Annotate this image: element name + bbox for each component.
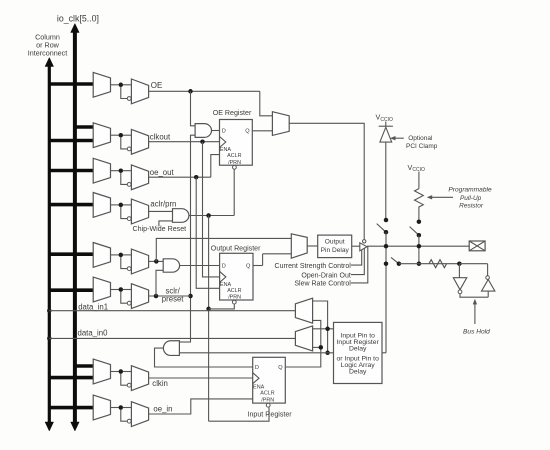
svg-text:Output Register: Output Register xyxy=(211,244,261,252)
svg-text:/PRN: /PRN xyxy=(261,397,274,403)
svg-text:PCI Clamp: PCI Clamp xyxy=(406,143,438,150)
svg-text:ACLR: ACLR xyxy=(227,153,241,159)
svg-text:clkout: clkout xyxy=(150,133,171,142)
svg-text:ACLR: ACLR xyxy=(227,288,241,294)
svg-text:D: D xyxy=(222,129,226,135)
svg-text:CCIO: CCIO xyxy=(380,117,393,123)
svg-text:oe_out: oe_out xyxy=(150,168,175,177)
svg-text:Input Register: Input Register xyxy=(248,411,293,419)
svg-text:Resistor: Resistor xyxy=(459,203,484,210)
svg-text:Open-Drain Out: Open-Drain Out xyxy=(301,272,350,279)
svg-text:Delay: Delay xyxy=(349,369,367,376)
svg-text:/PRN: /PRN xyxy=(228,294,241,300)
svg-text:oe_in: oe_in xyxy=(153,405,172,414)
svg-text:clkin: clkin xyxy=(152,379,168,388)
svg-text:ACLR: ACLR xyxy=(260,391,274,397)
svg-text:Q: Q xyxy=(245,129,250,135)
svg-text:Slew Rate Control: Slew Rate Control xyxy=(294,281,351,288)
svg-text:aclr/prn: aclr/prn xyxy=(150,199,176,208)
svg-text:Delay: Delay xyxy=(349,345,367,352)
svg-text:D: D xyxy=(222,264,226,270)
svg-text:Current Strength Control: Current Strength Control xyxy=(275,263,352,270)
svg-text:data_in1: data_in1 xyxy=(78,302,108,311)
svg-text:Chip-Wide Reset: Chip-Wide Reset xyxy=(133,225,187,233)
svg-text:Interconnect: Interconnect xyxy=(28,49,68,58)
svg-text:io_clk[5..0]: io_clk[5..0] xyxy=(57,13,99,23)
svg-text:Programmable: Programmable xyxy=(448,187,492,194)
svg-text:Pin Delay: Pin Delay xyxy=(321,247,350,254)
svg-text:Q: Q xyxy=(278,365,283,371)
svg-text:D: D xyxy=(255,365,259,371)
svg-text:Output: Output xyxy=(325,239,345,246)
svg-text:OE: OE xyxy=(151,81,163,90)
svg-text:Q: Q xyxy=(246,264,251,270)
svg-text:data_in0: data_in0 xyxy=(78,329,109,338)
svg-text:Optional: Optional xyxy=(408,135,433,142)
svg-text:Bus Hold: Bus Hold xyxy=(463,328,490,335)
svg-text:Pull-Up: Pull-Up xyxy=(460,195,482,202)
svg-text:OE Register: OE Register xyxy=(213,109,252,117)
